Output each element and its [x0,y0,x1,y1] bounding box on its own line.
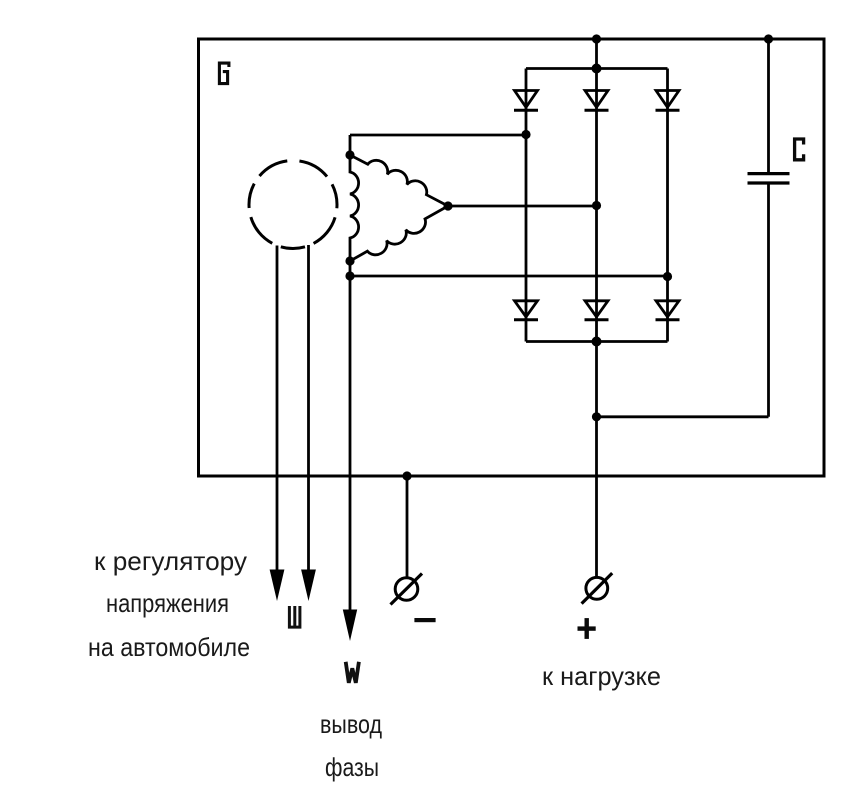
wire: phase A horizontal (delta top to bridge left column) [350,134,526,137]
svg-text:вывод: вывод [320,709,382,739]
svg-text:напряжения: напряжения [106,588,229,618]
arrowhead of phase output W [343,610,357,642]
diode VD5 (bottom middle) [585,301,609,320]
label W [346,662,359,683]
bridge rectifier: left column wire [525,69,528,342]
wire: minus terminal lead [406,476,409,578]
diode VD3 (top right) [656,91,680,111]
node: bridge top bus junction [592,64,602,74]
svg-text:фазы: фазы [325,752,379,782]
stator delta winding: bottom phase coil (diagonal side with 3 bumps) [350,206,448,261]
node: delta top vertex junction [345,150,354,159]
text: к регулятору [94,546,247,576]
svg-text:к нагрузке: к нагрузке [542,661,661,691]
rotor field winding (dashed circle) [249,161,337,249]
node: phase C to bridge right column junction [663,272,672,281]
diode VD6 (bottom right) [656,301,680,320]
wire: capacitor bottom return horizontal [597,415,769,418]
node: bridge bottom bus junction [592,337,602,347]
label plus [578,618,596,639]
diode VD2 (top middle) [585,91,609,111]
label Ш [289,606,300,627]
node: delta right vertex junction [443,201,452,210]
stator delta winding: left phase coil (vertical side with 3 bumps) [350,135,359,261]
wire: phase output W vertical line [349,261,352,611]
generator housing box G [199,39,825,476]
text: напряжения [106,588,229,618]
node: phase W tap junction [345,271,354,280]
label G [219,63,229,84]
rotor lead wire right (to Ш arrow) [307,245,310,571]
text: вывод [320,709,382,739]
wire: phase C horizontal (delta bottom to bridge right column) [350,275,668,278]
bridge rectifier: right column wire [666,69,669,342]
stator delta winding: top phase coil (diagonal side with 3 bumps) [350,155,448,206]
arrowhead of right rotor lead [301,570,316,602]
node: phase B to bridge middle column junction [592,201,601,210]
diode VD4 (bottom left) [514,301,538,320]
wire: phase B horizontal (delta right vertex to bridge middle column) [448,205,597,208]
diode VD1 (top left) [514,91,538,111]
node: capacitor return junction [592,412,601,421]
rotor lead wire left (to Ш arrow) [276,246,279,572]
text: на автомобиле [88,632,250,662]
bridge rectifier: middle column wire [595,39,598,342]
node: minus tap on housing bottom [402,471,411,480]
arrowhead of left rotor lead [270,570,285,602]
capacitor C [748,39,790,417]
svg-text:на автомобиле: на автомобиле [88,632,250,662]
bridge rectifier: top bus wire [526,67,668,70]
minus terminal (circle with slash) [391,574,423,605]
wire: plus output vertical (bridge bottom to plus terminal) [595,342,598,578]
node: phase A to bridge left column junction [521,130,530,139]
bridge rectifier: bottom bus wire [526,340,668,343]
node: capacitor top tap on housing top [764,34,773,43]
text: фазы [325,752,379,782]
node: plus bus on housing top left [592,34,601,43]
node: delta bottom vertex junction [345,256,354,265]
label minus [414,618,435,622]
text: к нагрузке [542,661,661,691]
plus terminal (circle with slash) [582,573,613,604]
label C [795,139,804,160]
svg-text:к регулятору: к регулятору [94,546,247,576]
